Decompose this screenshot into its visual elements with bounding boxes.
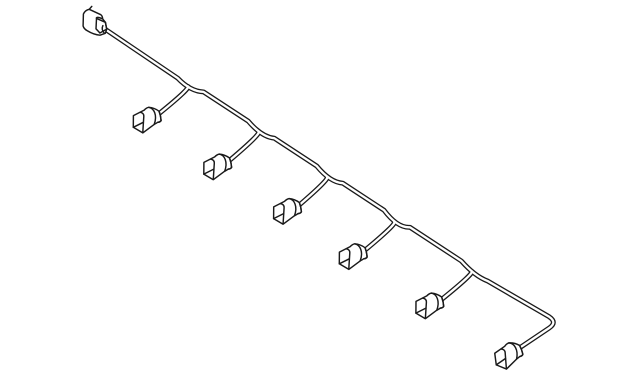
branch wire to injector connector C5 : outline bbox=[442, 271, 472, 299]
injector connector C2 bbox=[204, 154, 232, 180]
branch wire to injector connector C3 : outline bbox=[300, 177, 328, 205]
main harness connector bbox=[83, 6, 107, 35]
branch wire to injector connector C1 : outline bbox=[159, 86, 188, 113]
injector connector C3 bbox=[274, 199, 302, 225]
branch wire to injector connector C2 : outline bbox=[230, 132, 259, 161]
branch wire to injector connector C4 : outline bbox=[365, 222, 394, 250]
injector connector C6 bbox=[493, 341, 524, 370]
branch wire to injector connector C5 : white core bbox=[442, 271, 472, 299]
injector connector C1 bbox=[133, 107, 161, 133]
harness trunk wire (main connector to elbow to C6) : outline bbox=[104, 29, 553, 348]
branch wire to injector connector C2 : white core bbox=[230, 132, 259, 161]
branch wire to injector connector C4 : white core bbox=[365, 222, 394, 250]
harness trunk wire (main connector to elbow to C6) : white core bbox=[104, 29, 553, 348]
branch wire to injector connector C1 : white core bbox=[159, 86, 188, 113]
injector connector C5 bbox=[416, 293, 444, 319]
branch wire to injector connector C3 : white core bbox=[300, 177, 328, 205]
injector connector C4 bbox=[339, 244, 367, 270]
